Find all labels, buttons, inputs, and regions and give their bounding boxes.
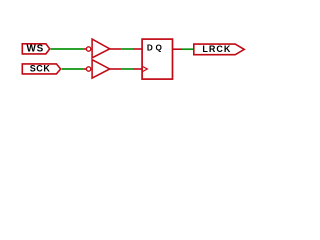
svg-text:D: D: [147, 43, 153, 52]
svg-text:Q: Q: [156, 43, 163, 52]
pin stub U2 output: [110, 68, 122, 70]
svg-text:SCK: SCK: [30, 64, 51, 74]
terminal LRCK: [194, 44, 244, 55]
svg-text:LRCK: LRCK: [202, 44, 231, 54]
pin stub U3 clock input: [133, 68, 142, 70]
inverter U1 triangle: [92, 39, 110, 58]
pin stub U1 output: [110, 48, 122, 50]
inverter U2 triangle: [92, 60, 110, 78]
svg-text:WS: WS: [26, 44, 44, 55]
wire WS to inverter U1 input: [51, 48, 84, 50]
wire U1 output to U3 D input: [122, 48, 133, 50]
inverter U2 input bubble: [86, 67, 90, 71]
terminal WS: [22, 44, 49, 54]
inverter U1 input bubble: [86, 47, 90, 51]
terminal SCK: [22, 64, 60, 74]
D flip-flop U3 body: [142, 39, 172, 79]
pin stub U1 input: [83, 48, 86, 50]
pin stub U3 Q output: [173, 48, 183, 50]
wire SCK to inverter U2 input: [62, 68, 84, 70]
wire U2 output to U3 clock: [122, 68, 133, 70]
pin stub U3 D input: [133, 48, 142, 50]
U3 clock wedge: [143, 67, 148, 72]
wire U3 Q to LRCK: [182, 48, 194, 50]
pin stub U2 input: [83, 68, 86, 70]
